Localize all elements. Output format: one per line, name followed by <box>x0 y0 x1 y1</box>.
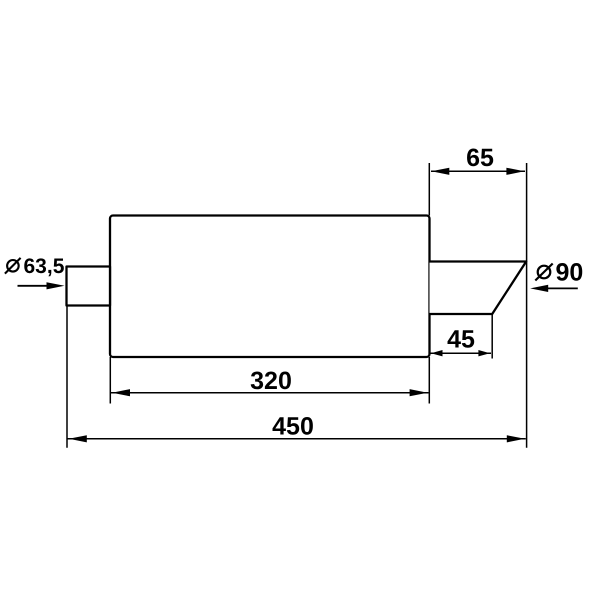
diameter symbol for 63,5 <box>5 258 21 274</box>
dimension 45 line <box>431 352 492 354</box>
dimension 45 left arrowhead <box>431 350 443 356</box>
svg-text:45: 45 <box>447 326 475 354</box>
extension line: body right edge downward to 320 dim <box>428 357 430 404</box>
dimension 45 right arrowhead <box>478 350 490 356</box>
muffler body rectangle <box>110 216 430 358</box>
outlet flow arrow (points left at pipe tip) <box>545 287 578 289</box>
dimension 450 right arrowhead <box>507 435 525 442</box>
extension line: outlet pipe bottom corner down to 45 dim <box>491 314 493 359</box>
dimension 65 right arrowhead <box>506 168 524 175</box>
svg-text:65: 65 <box>466 144 494 172</box>
dimension 65 left arrowhead <box>431 168 449 175</box>
extension line: right outer (pipe tip) from 65 dim down to 450 dim <box>526 163 528 448</box>
dimension 450 line <box>68 438 526 440</box>
svg-text:320: 320 <box>250 367 292 395</box>
dimension 450 left arrowhead <box>69 435 87 442</box>
outlet pipe (right, Ø90, angled cut) <box>430 262 527 315</box>
inlet pipe (left, Ø63,5) <box>67 267 111 306</box>
diameter symbol for 90 <box>535 264 552 281</box>
dimension 65 line <box>431 170 525 172</box>
svg-text:63,5: 63,5 <box>24 255 65 278</box>
inlet flow arrow (points right at pipe) <box>18 285 51 287</box>
svg-text:90: 90 <box>556 259 584 287</box>
dimension 320 left arrowhead <box>112 389 130 396</box>
extension line: inlet pipe left edge down to 450 dim <box>66 306 68 448</box>
dimension 320 line <box>111 392 429 394</box>
extension line: body left edge down to 320 dim <box>109 357 111 404</box>
dimension 320 right arrowhead <box>410 389 428 396</box>
svg-text:450: 450 <box>272 413 314 441</box>
extension line: body right edge upward to 65 dim <box>428 163 430 216</box>
